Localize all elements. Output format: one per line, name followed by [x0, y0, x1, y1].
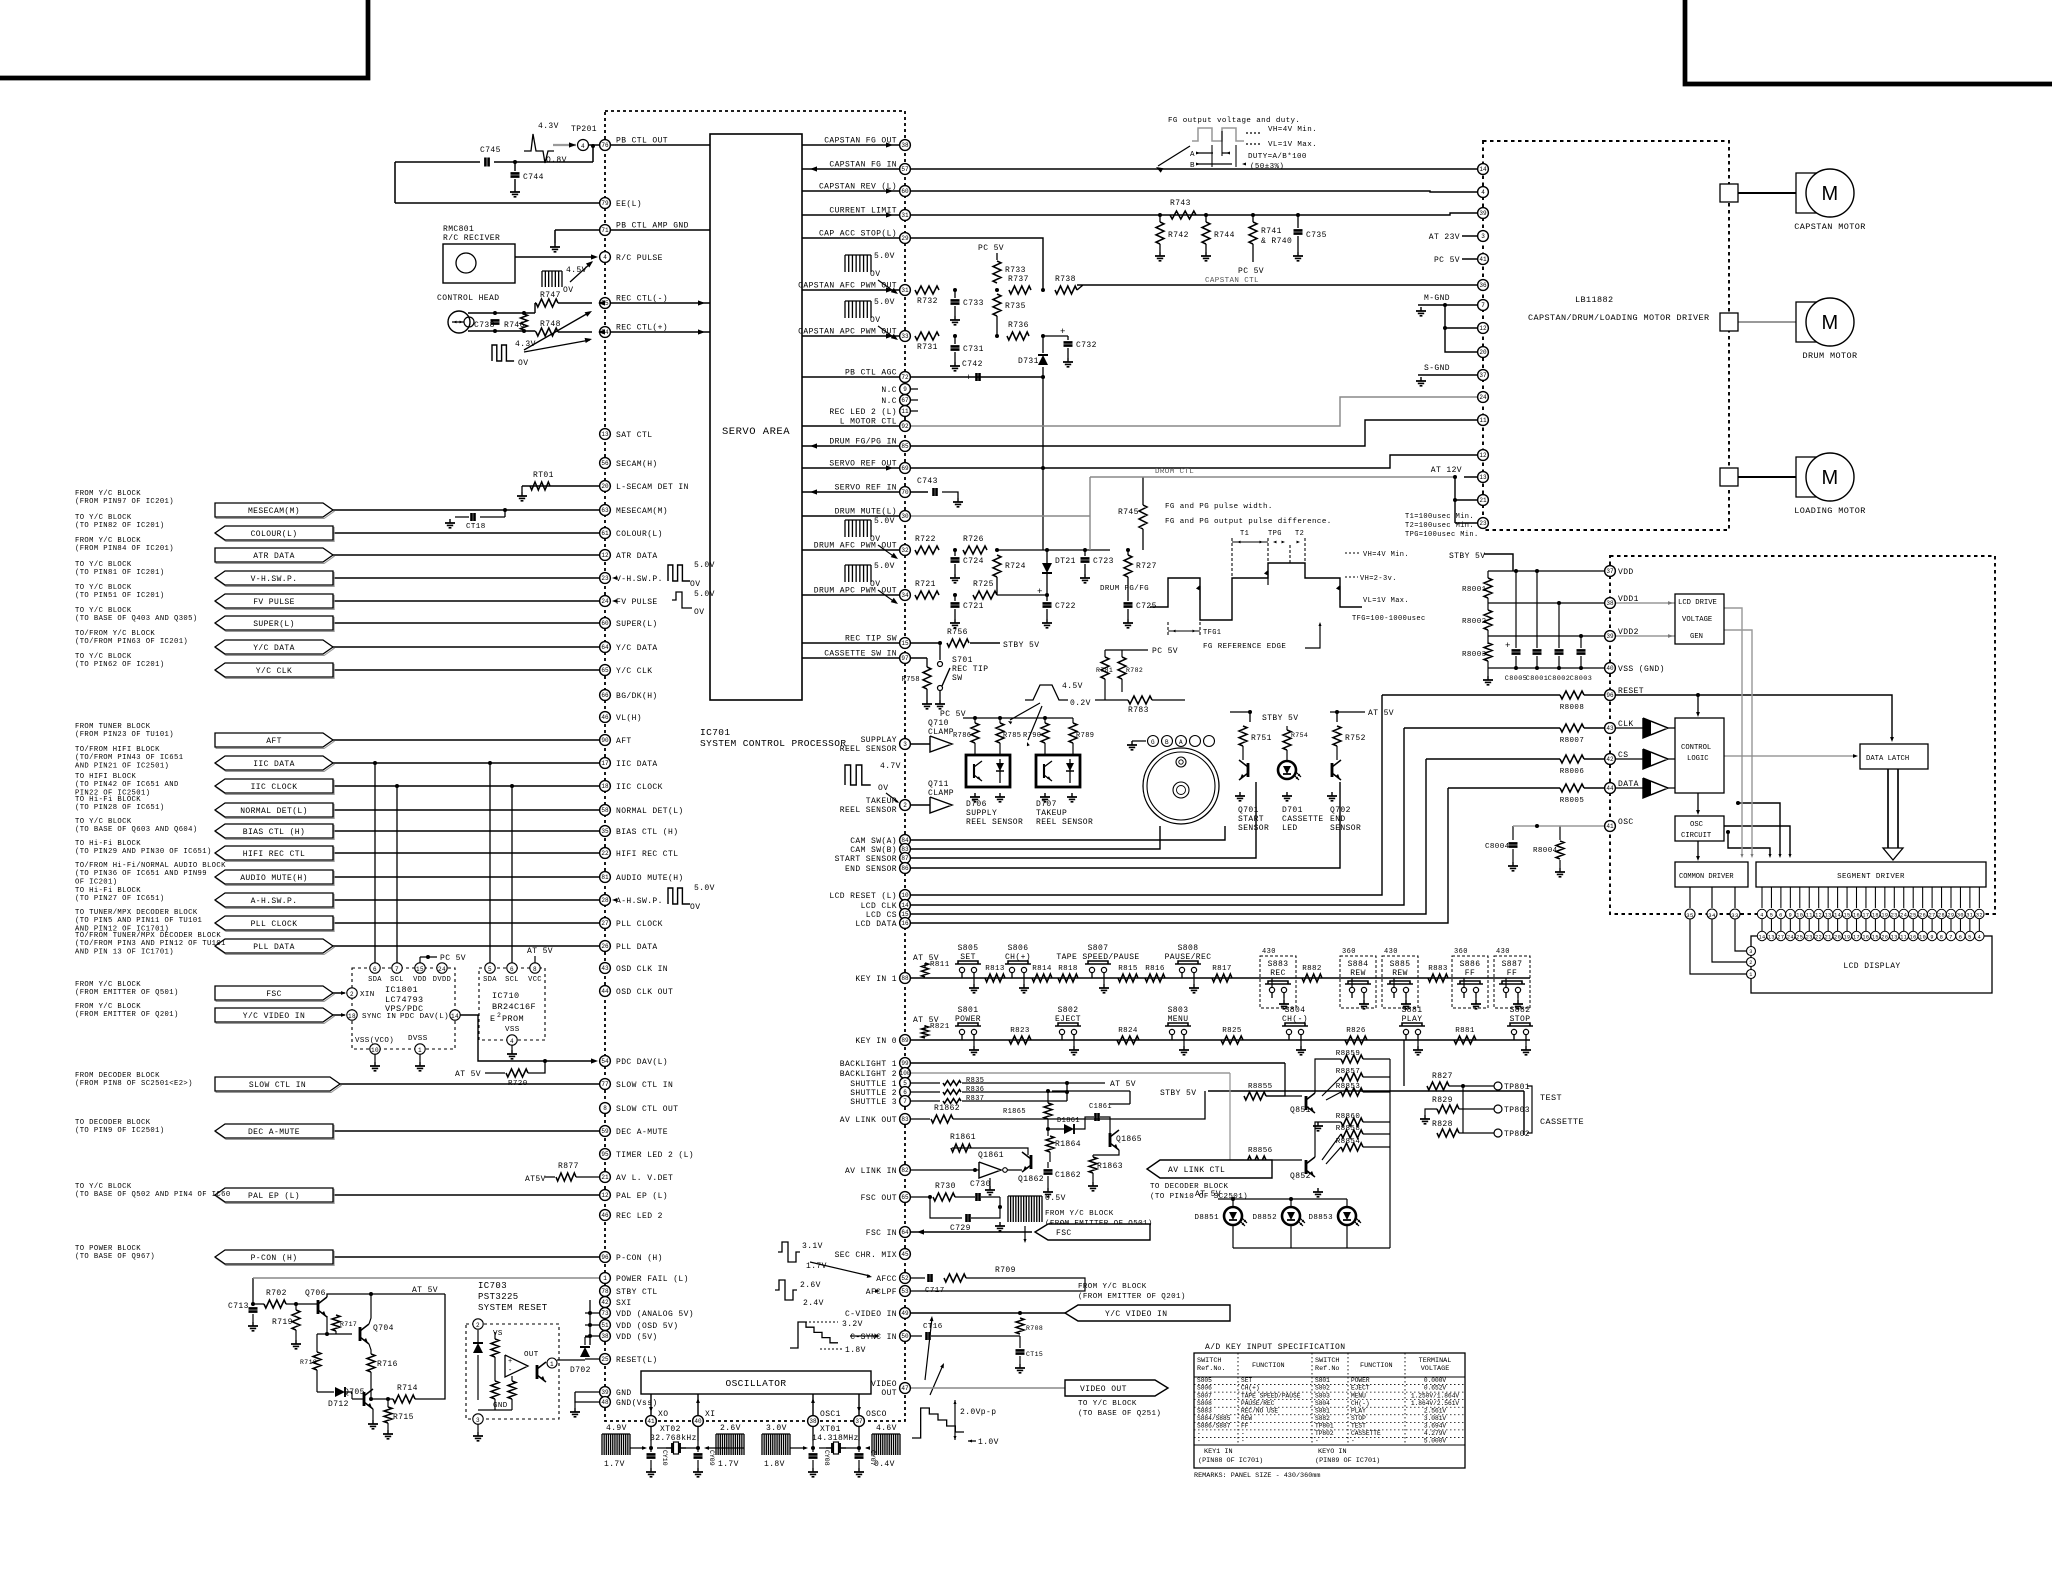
- svg-text:R1865: R1865: [1003, 1108, 1026, 1116]
- svg-text:LOADING MOTOR: LOADING MOTOR: [1794, 506, 1866, 516]
- svg-text:96: 96: [1606, 692, 1614, 699]
- svg-text:REC CTL(-): REC CTL(-): [616, 295, 668, 304]
- svg-text:14: 14: [1479, 166, 1487, 173]
- svg-text:2.6V: 2.6V: [800, 1281, 821, 1290]
- svg-text:START: START: [1238, 815, 1264, 824]
- svg-text:CH(+): CH(+): [1005, 953, 1031, 962]
- svg-text:R715: R715: [393, 1413, 414, 1422]
- svg-text:S882: S882: [1315, 1415, 1330, 1422]
- svg-text:TO Hi-Fi BLOCK: TO Hi-Fi BLOCK: [75, 887, 141, 895]
- svg-text:(TO PIN42 OF IC651 AND: (TO PIN42 OF IC651 AND: [75, 781, 179, 789]
- svg-text:R824: R824: [1118, 1027, 1138, 1035]
- svg-text:0.4V: 0.4V: [874, 1460, 895, 1469]
- svg-text:6: 6: [1779, 913, 1783, 919]
- svg-text:88: 88: [901, 975, 909, 982]
- svg-text:PC 5V: PC 5V: [1238, 267, 1264, 276]
- svg-text:SHUTTLE 1: SHUTTLE 1: [850, 1080, 897, 1089]
- svg-text:C724: C724: [963, 557, 984, 566]
- svg-text:TO POWER BLOCK: TO POWER BLOCK: [75, 1245, 141, 1253]
- svg-text:REC TIP: REC TIP: [952, 665, 988, 674]
- svg-text:VDD2: VDD2: [1618, 628, 1639, 637]
- svg-text:TP801: TP801: [1504, 1083, 1530, 1092]
- svg-text:S886: S886: [1460, 960, 1481, 969]
- svg-text:XI: XI: [705, 1410, 715, 1419]
- svg-text:C744: C744: [523, 173, 544, 182]
- svg-text:PST3225: PST3225: [478, 1292, 519, 1302]
- svg-text:30: 30: [1957, 913, 1964, 919]
- svg-text:PC 5V: PC 5V: [1152, 647, 1178, 656]
- svg-text:100: 100: [900, 1070, 911, 1077]
- svg-text:R8856: R8856: [1248, 1147, 1273, 1155]
- svg-text:S883: S883: [1268, 960, 1289, 969]
- svg-text:7: 7: [395, 966, 399, 973]
- svg-text:6: 6: [1959, 935, 1963, 941]
- svg-text:430: 430: [1262, 948, 1276, 956]
- svg-text:PROM: PROM: [502, 1014, 524, 1024]
- svg-text:24: 24: [438, 966, 446, 973]
- svg-text:5.0V: 5.0V: [694, 590, 715, 599]
- svg-text:GEN: GEN: [1690, 633, 1703, 641]
- svg-text:CY09: CY09: [708, 1450, 715, 1466]
- svg-text:START SENSOR: START SENSOR: [835, 855, 897, 864]
- svg-text:LCD CLK: LCD CLK: [861, 902, 897, 911]
- svg-text:13: 13: [1825, 913, 1832, 919]
- svg-text:R1864: R1864: [1055, 1140, 1081, 1149]
- svg-text:4.7V: 4.7V: [880, 762, 901, 771]
- svg-text:3.0V: 3.0V: [766, 1424, 787, 1433]
- svg-text:R8858: R8858: [1336, 1125, 1361, 1133]
- svg-text:AT 23V: AT 23V: [1429, 233, 1460, 242]
- svg-text:S803: S803: [1168, 1006, 1189, 1015]
- svg-text:FV PULSE: FV PULSE: [616, 598, 658, 607]
- svg-text:11: 11: [901, 408, 909, 415]
- svg-text:TP803: TP803: [1504, 1106, 1530, 1115]
- svg-text:TPG=100usec Min.: TPG=100usec Min.: [1405, 531, 1479, 539]
- svg-text:AT 12V: AT 12V: [1431, 466, 1462, 475]
- svg-text:BACKLIGHT 2: BACKLIGHT 2: [840, 1070, 897, 1079]
- svg-text:IIC CLOCK: IIC CLOCK: [251, 783, 298, 792]
- svg-text:S884/S885: S884/S885: [1197, 1415, 1231, 1422]
- svg-text:33: 33: [901, 333, 909, 340]
- svg-text:R8854: R8854: [1336, 1138, 1361, 1146]
- svg-text:-: -: [508, 1367, 513, 1375]
- svg-text:99: 99: [901, 1060, 909, 1067]
- svg-text:18: 18: [601, 783, 609, 790]
- svg-text:(TO PIN27 OF IC651): (TO PIN27 OF IC651): [75, 895, 165, 903]
- svg-text:52: 52: [901, 1275, 909, 1282]
- svg-text:REEL SENSOR: REEL SENSOR: [966, 818, 1023, 827]
- svg-text:D1861: D1861: [1057, 1117, 1080, 1125]
- svg-text:(TO PIN36 OF IC651 AND PIN99: (TO PIN36 OF IC651 AND PIN99: [75, 870, 207, 878]
- svg-text:S802: S802: [1315, 1385, 1330, 1392]
- svg-text:0.000V: 0.000V: [1424, 1377, 1447, 1384]
- svg-text:32: 32: [901, 547, 909, 554]
- svg-text:10: 10: [1919, 935, 1926, 941]
- svg-text:26: 26: [1881, 935, 1888, 941]
- svg-text:360: 360: [1454, 948, 1468, 956]
- svg-text:1.8V: 1.8V: [845, 1346, 866, 1355]
- svg-text:S807: S807: [1088, 944, 1109, 953]
- svg-text:FROM Y/C BLOCK: FROM Y/C BLOCK: [75, 981, 141, 989]
- svg-text:12: 12: [1479, 325, 1487, 332]
- svg-text:(TO/FROM PIN43 OF IC651: (TO/FROM PIN43 OF IC651: [75, 754, 183, 762]
- svg-text:44: 44: [1606, 785, 1614, 792]
- svg-text:+: +: [966, 373, 972, 383]
- svg-text:S805: S805: [958, 944, 979, 953]
- svg-text:BIAS CTL (H): BIAS CTL (H): [616, 828, 678, 837]
- svg-text:37: 37: [1606, 568, 1614, 575]
- svg-text:BG/DK(H): BG/DK(H): [616, 692, 658, 701]
- svg-text:1.7V: 1.7V: [604, 1460, 625, 1469]
- svg-text:17: 17: [1853, 935, 1860, 941]
- svg-text:FROM Y/C BLOCK: FROM Y/C BLOCK: [1078, 1283, 1147, 1291]
- svg-text:PDC DAV(L): PDC DAV(L): [400, 1013, 449, 1021]
- svg-text:430: 430: [1384, 948, 1398, 956]
- svg-text:R789: R789: [1076, 732, 1094, 740]
- svg-text:C8005: C8005: [1505, 675, 1527, 683]
- svg-text:FG and PG output pulse differe: FG and PG output pulse difference.: [1165, 518, 1332, 526]
- svg-text:R751: R751: [1251, 734, 1272, 743]
- svg-text:14: 14: [1758, 935, 1765, 941]
- svg-text:37: 37: [1479, 372, 1487, 379]
- svg-text:17: 17: [1862, 913, 1869, 919]
- svg-text:TO Y/C BLOCK: TO Y/C BLOCK: [75, 514, 132, 522]
- svg-text:C730: C730: [970, 1180, 991, 1189]
- svg-text:DATA: DATA: [1618, 780, 1639, 789]
- svg-text:R825: R825: [1222, 1027, 1242, 1035]
- svg-text:CAPSTAN AFC PWM OUT: CAPSTAN AFC PWM OUT: [798, 282, 897, 291]
- svg-text:CLAMP: CLAMP: [928, 728, 954, 737]
- svg-text:5.0V: 5.0V: [694, 561, 715, 570]
- svg-text:Y/C VIDEO IN: Y/C VIDEO IN: [1105, 1310, 1167, 1319]
- svg-text:12: 12: [601, 1192, 609, 1199]
- svg-text:S805: S805: [1197, 1377, 1212, 1384]
- svg-text:15: 15: [1844, 913, 1851, 919]
- svg-text:CLK: CLK: [1618, 720, 1634, 729]
- svg-text:Q702: Q702: [1330, 806, 1351, 815]
- svg-text:7: 7: [1481, 302, 1485, 309]
- svg-text:45: 45: [901, 1251, 909, 1258]
- svg-text:TO Y/C BLOCK: TO Y/C BLOCK: [75, 561, 132, 569]
- svg-text:REMARKS: PANEL SIZE - 430/360m: REMARKS: PANEL SIZE - 430/360mm: [1194, 1472, 1320, 1480]
- svg-text:END: END: [1330, 815, 1346, 824]
- svg-text:C8001: C8001: [1526, 675, 1548, 683]
- svg-text:R754: R754: [1291, 732, 1308, 739]
- svg-text:1: 1: [550, 1361, 554, 1368]
- svg-text:POWER: POWER: [1351, 1377, 1370, 1384]
- svg-text:LCD DRIVE: LCD DRIVE: [1678, 599, 1717, 607]
- svg-text:0.2V: 0.2V: [1070, 699, 1091, 708]
- svg-text:OSC: OSC: [1618, 818, 1634, 827]
- svg-text:Q705: Q705: [344, 1388, 365, 1397]
- svg-text:(TO BASE OF Q403 AND Q305): (TO BASE OF Q403 AND Q305): [75, 615, 198, 623]
- svg-text:R722: R722: [915, 535, 936, 544]
- svg-text:SET: SET: [1241, 1377, 1252, 1384]
- svg-text:FG REFERENCE EDGE: FG REFERENCE EDGE: [1203, 643, 1286, 651]
- svg-text:Q711: Q711: [928, 780, 949, 789]
- svg-text:60: 60: [901, 188, 909, 195]
- svg-text:CIRCUIT: CIRCUIT: [1681, 832, 1712, 840]
- svg-text:-: -: [1197, 1438, 1201, 1445]
- svg-text:R745: R745: [1118, 508, 1139, 517]
- svg-text:3: 3: [476, 1417, 480, 1424]
- svg-text:3.081V: 3.081V: [1424, 1415, 1447, 1422]
- svg-text:25: 25: [1796, 935, 1803, 941]
- svg-text:R737: R737: [1008, 275, 1029, 284]
- svg-text:R818: R818: [1058, 965, 1078, 973]
- svg-text:D707: D707: [1036, 800, 1057, 809]
- svg-text:R747: R747: [540, 291, 561, 300]
- svg-text:S802: S802: [1058, 1006, 1079, 1015]
- svg-text:(TO PIN5 AND PIN11 OF TU101: (TO PIN5 AND PIN11 OF TU101: [75, 917, 202, 925]
- svg-text:FROM Y/C BLOCK: FROM Y/C BLOCK: [75, 490, 141, 498]
- svg-text:24: 24: [601, 598, 609, 605]
- svg-text:43: 43: [601, 965, 609, 972]
- svg-text:B: B: [1190, 162, 1195, 170]
- svg-text:R837: R837: [966, 1095, 984, 1103]
- svg-text:S882: S882: [1510, 1006, 1531, 1015]
- svg-text:CASSETTE: CASSETTE: [1282, 815, 1324, 824]
- svg-text:R718: R718: [300, 1359, 317, 1366]
- svg-text:C721: C721: [963, 602, 984, 611]
- svg-text:4: 4: [1760, 913, 1764, 919]
- svg-text:Q701: Q701: [1238, 806, 1259, 815]
- svg-text:STOP: STOP: [1351, 1415, 1366, 1422]
- svg-text:2.6V: 2.6V: [720, 1424, 741, 1433]
- svg-text:SAT CTL: SAT CTL: [616, 431, 652, 440]
- svg-text:ATR DATA: ATR DATA: [253, 552, 295, 561]
- svg-text:LED: LED: [1282, 824, 1298, 833]
- svg-text:(FROM EMITTER OF Q501): (FROM EMITTER OF Q501): [75, 989, 179, 997]
- svg-text:61: 61: [601, 530, 609, 537]
- svg-text:20: 20: [1479, 349, 1487, 356]
- svg-text:T2=100usec Min.: T2=100usec Min.: [1405, 522, 1474, 530]
- svg-text:R8001: R8001: [1462, 586, 1487, 594]
- svg-text:VL=1V Max.: VL=1V Max.: [1268, 141, 1317, 149]
- svg-text:26: 26: [601, 943, 609, 950]
- svg-text:CAM SW(A): CAM SW(A): [850, 837, 897, 846]
- svg-text:31: 31: [901, 287, 909, 294]
- svg-text:N.C: N.C: [881, 386, 897, 395]
- svg-text:Q1861: Q1861: [978, 1151, 1004, 1160]
- svg-text:PLAY: PLAY: [1402, 1015, 1423, 1024]
- svg-text:PB CTL OUT: PB CTL OUT: [616, 137, 668, 146]
- svg-text:34: 34: [1708, 912, 1716, 919]
- svg-text:CT15: CT15: [1026, 1351, 1043, 1358]
- svg-text:TIMER LED 2 (L): TIMER LED 2 (L): [616, 1151, 694, 1160]
- svg-text:VDD (5V): VDD (5V): [616, 1333, 658, 1342]
- svg-text:70: 70: [901, 489, 909, 496]
- svg-text:38: 38: [601, 1333, 609, 1340]
- svg-text:DRUM MUTE(L): DRUM MUTE(L): [835, 508, 897, 517]
- svg-text:TO Hi-Fi BLOCK: TO Hi-Fi BLOCK: [75, 840, 141, 848]
- svg-text:7: 7: [903, 1098, 907, 1105]
- svg-text:5: 5: [488, 966, 492, 973]
- svg-text:R8008: R8008: [1560, 704, 1585, 712]
- svg-text:C1861: C1861: [1089, 1103, 1112, 1111]
- svg-text:FUNCTION: FUNCTION: [1360, 1362, 1393, 1370]
- svg-text:58: 58: [601, 807, 609, 814]
- svg-text:SENSOR: SENSOR: [1238, 824, 1269, 833]
- svg-text:C745: C745: [480, 146, 501, 155]
- svg-text:OV: OV: [690, 580, 700, 589]
- svg-text:VDD: VDD: [413, 976, 427, 984]
- svg-text:R738: R738: [1055, 275, 1076, 284]
- svg-text:SEGMENT DRIVER: SEGMENT DRIVER: [1837, 873, 1905, 881]
- svg-text:D701: D701: [1282, 806, 1303, 815]
- svg-text:2.4V: 2.4V: [803, 1299, 824, 1308]
- svg-text:81: 81: [601, 874, 609, 881]
- svg-text:10: 10: [1796, 913, 1803, 919]
- svg-text:OUT: OUT: [524, 1351, 539, 1359]
- svg-text:87: 87: [901, 855, 909, 862]
- svg-text:Y/C VIDEO IN: Y/C VIDEO IN: [243, 1012, 305, 1021]
- svg-text:IC710: IC710: [492, 991, 520, 1001]
- svg-text:48: 48: [601, 1399, 609, 1406]
- svg-text:TP802: TP802: [1315, 1430, 1334, 1437]
- svg-text:TO TUNER/MPX DECODER BLOCK: TO TUNER/MPX DECODER BLOCK: [75, 909, 198, 917]
- svg-text:R826: R826: [1346, 1027, 1366, 1035]
- svg-text:TEST: TEST: [1351, 1422, 1366, 1429]
- svg-text:44: 44: [601, 988, 609, 995]
- svg-text:D706: D706: [966, 800, 987, 809]
- svg-text:24: 24: [1787, 935, 1794, 941]
- svg-text:XIN: XIN: [360, 991, 375, 999]
- svg-text:R742: R742: [1168, 231, 1189, 240]
- svg-text:OV: OV: [870, 580, 880, 589]
- svg-text:VDD (OSD 5V): VDD (OSD 5V): [616, 1322, 678, 1331]
- svg-text:P-CON (H): P-CON (H): [616, 1254, 663, 1263]
- svg-text:(TO PIN82 OF IC201): (TO PIN82 OF IC201): [75, 522, 165, 530]
- svg-text:D8853: D8853: [1308, 1214, 1333, 1222]
- svg-text:SXI: SXI: [616, 1299, 632, 1308]
- svg-text:2: 2: [1749, 960, 1753, 966]
- svg-text:77: 77: [601, 1081, 609, 1088]
- svg-text:AV LINK OUT: AV LINK OUT: [840, 1116, 897, 1125]
- svg-text:R716: R716: [377, 1360, 398, 1369]
- svg-text:R815: R815: [1118, 965, 1138, 973]
- svg-text:CH(-): CH(-): [1351, 1400, 1370, 1407]
- svg-text:72: 72: [901, 374, 909, 381]
- svg-text:(TO PIN81 OF IC201): (TO PIN81 OF IC201): [75, 569, 165, 577]
- svg-text:C1862: C1862: [1055, 1171, 1081, 1180]
- svg-text:PAUSE/REC: PAUSE/REC: [1241, 1400, 1275, 1407]
- svg-text:4.5V: 4.5V: [1062, 682, 1083, 691]
- svg-text:R827: R827: [1432, 1072, 1453, 1081]
- svg-text:M: M: [1821, 312, 1838, 334]
- svg-text:VSS (GND): VSS (GND): [1618, 665, 1665, 674]
- svg-text:DVDD: DVDD: [433, 976, 451, 984]
- svg-text:EE(L): EE(L): [616, 200, 642, 209]
- svg-text:STBY 5V: STBY 5V: [1160, 1089, 1196, 1098]
- svg-text:Y/C CLK: Y/C CLK: [256, 667, 292, 676]
- svg-text:SERVO REF IN: SERVO REF IN: [835, 484, 897, 493]
- svg-text:(TO/FROM PIN3 AND PIN12 OF TU1: (TO/FROM PIN3 AND PIN12 OF TU101: [75, 940, 226, 948]
- svg-text:64: 64: [601, 644, 609, 651]
- svg-text:KEY1 IN: KEY1 IN: [1204, 1448, 1233, 1456]
- svg-text:IIC CLOCK: IIC CLOCK: [616, 783, 663, 792]
- svg-text:T1: T1: [1240, 530, 1249, 538]
- svg-text:23: 23: [601, 575, 609, 582]
- svg-text:28: 28: [601, 897, 609, 904]
- svg-text:-: -: [1241, 1438, 1245, 1445]
- svg-text:65: 65: [901, 1194, 909, 1201]
- svg-text:11: 11: [1900, 935, 1907, 941]
- svg-text:R721: R721: [915, 580, 936, 589]
- svg-text:R835: R835: [966, 1077, 984, 1085]
- svg-text:SLOW CTL OUT: SLOW CTL OUT: [616, 1105, 678, 1114]
- svg-text:5.0V: 5.0V: [874, 517, 895, 526]
- svg-text:DRUM FG/PG IN: DRUM FG/PG IN: [829, 438, 897, 447]
- svg-text:R709: R709: [995, 1266, 1016, 1275]
- svg-text:COLOUR(L): COLOUR(L): [616, 530, 663, 539]
- svg-text:39: 39: [1606, 633, 1614, 640]
- svg-text:D712: D712: [328, 1400, 349, 1409]
- svg-text:DATA LATCH: DATA LATCH: [1866, 755, 1909, 763]
- svg-text:CASSETTE SW IN: CASSETTE SW IN: [824, 650, 897, 659]
- svg-text:5: 5: [1968, 935, 1972, 941]
- svg-text:FROM Y/C BLOCK: FROM Y/C BLOCK: [75, 1003, 141, 1011]
- svg-text:TERMINAL: TERMINAL: [1419, 1357, 1452, 1365]
- svg-text:SYNC IN: SYNC IN: [362, 1013, 396, 1021]
- svg-text:R8853: R8853: [1336, 1083, 1361, 1091]
- svg-text:R781: R781: [1096, 667, 1113, 674]
- svg-text:IIC DATA: IIC DATA: [616, 760, 658, 769]
- svg-text:R836: R836: [966, 1086, 984, 1094]
- svg-text:Q851: Q851: [1290, 1106, 1311, 1115]
- svg-text:M: M: [1821, 467, 1838, 489]
- svg-text:R882: R882: [1302, 965, 1322, 973]
- svg-text:C722: C722: [1055, 602, 1076, 611]
- svg-text:V-H.SW.P.: V-H.SW.P.: [616, 575, 663, 584]
- svg-text:VH=4V Min.: VH=4V Min.: [1363, 551, 1409, 559]
- svg-text:AFCC: AFCC: [876, 1275, 897, 1284]
- svg-text:16: 16: [901, 920, 909, 927]
- svg-text:R785: R785: [1003, 732, 1021, 740]
- svg-text:VDD (ANALOG 5V): VDD (ANALOG 5V): [616, 1310, 694, 1319]
- svg-text:ATR DATA: ATR DATA: [616, 552, 658, 561]
- svg-text:S807: S807: [1197, 1392, 1212, 1399]
- svg-text:4: 4: [603, 254, 607, 261]
- svg-text:Q710: Q710: [928, 719, 949, 728]
- svg-text:53: 53: [901, 1288, 909, 1295]
- svg-text:KEY IN 0: KEY IN 0: [855, 1037, 897, 1046]
- svg-text:GND(Vss): GND(Vss): [616, 1399, 658, 1408]
- svg-text:VH=4V Min.: VH=4V Min.: [1268, 126, 1317, 134]
- svg-text:95: 95: [601, 1151, 609, 1158]
- svg-text:47: 47: [901, 1385, 909, 1392]
- svg-text:C738: C738: [474, 321, 495, 330]
- svg-text:92: 92: [901, 423, 909, 430]
- svg-text:R823: R823: [1010, 1027, 1030, 1035]
- svg-text:18: 18: [1872, 913, 1879, 919]
- svg-text:RT01: RT01: [533, 471, 554, 480]
- svg-text:AT 5V: AT 5V: [527, 947, 553, 956]
- svg-text:R732: R732: [917, 297, 938, 306]
- svg-text:25: 25: [601, 1356, 609, 1363]
- svg-text:COLOUR(L): COLOUR(L): [251, 530, 298, 539]
- svg-text:1.8V: 1.8V: [764, 1460, 785, 1469]
- svg-text:FV PULSE: FV PULSE: [253, 598, 295, 607]
- svg-text:OSD CLK IN: OSD CLK IN: [616, 965, 668, 974]
- svg-text:SERVO AREA: SERVO AREA: [722, 426, 790, 438]
- svg-text:S881: S881: [1402, 1006, 1423, 1015]
- svg-text:Ref.No.: Ref.No.: [1197, 1365, 1226, 1373]
- svg-text:KEYO IN: KEYO IN: [1318, 1448, 1347, 1456]
- svg-text:RMC801: RMC801: [443, 225, 474, 234]
- svg-text:(FROM EMITTER OF Q201): (FROM EMITTER OF Q201): [75, 1011, 179, 1019]
- svg-text:BIAS CTL (H): BIAS CTL (H): [243, 828, 305, 837]
